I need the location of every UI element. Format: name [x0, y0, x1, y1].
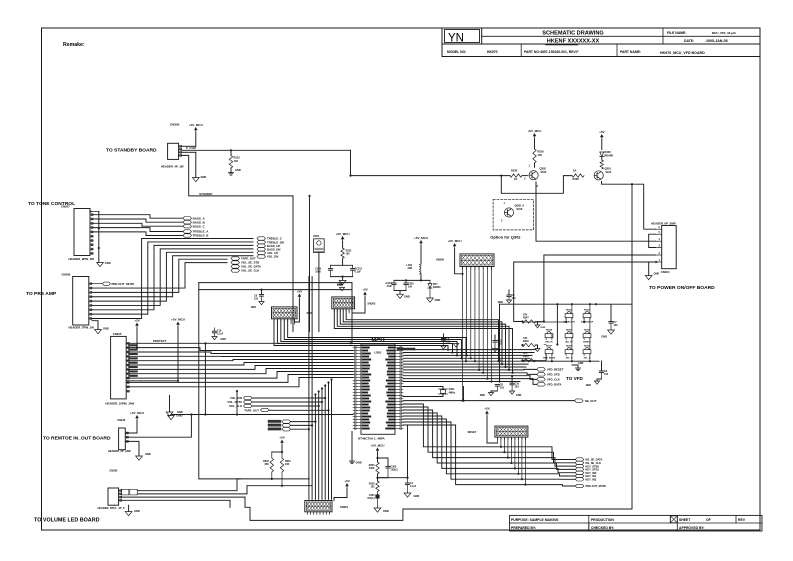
power +5V_MCU at CN240 — [135, 415, 139, 418]
ground below CN302 — [128, 505, 130, 511]
svg-text:102: 102 — [371, 486, 376, 489]
zener ZD301 — [429, 280, 431, 283]
wire Q301 emitter net to CN304 pin6 — [602, 182, 656, 230]
svg-text:OF: OF — [706, 518, 711, 522]
ground triangle mid — [453, 344, 459, 348]
svg-text:CN206: CN206 — [62, 273, 71, 277]
svg-text:REV: REV — [738, 518, 746, 522]
wire P_CON from CN300 to Q302 region — [182, 149, 351, 151]
wire base net y175.6 — [351, 175, 511, 177]
svg-text:103: 103 — [234, 159, 239, 163]
svg-text:PURPOSE: SAMPLE MAKING: PURPOSE: SAMPLE MAKING — [511, 518, 559, 522]
svg-text:103: 103 — [614, 324, 619, 327]
svg-text:VFD_CLK: VFD_CLK — [547, 378, 560, 382]
capacitor C304 104C — [377, 491, 379, 494]
svg-text:SN303: SN303 — [367, 302, 375, 306]
wire vertical x557 from rail — [556, 304, 558, 344]
svg-text:100K: 100K — [369, 467, 375, 470]
svg-text:SB_OUT: SB_OUT — [585, 399, 597, 403]
svg-text:103: 103 — [512, 297, 517, 300]
svg-text:GND: GND — [480, 394, 486, 397]
wire verticals v3-v8 down to SN304 — [314, 395, 316, 499]
svg-text:GND: GND — [177, 410, 183, 414]
MCU right bus lines — [403, 349, 536, 351]
svg-text:Option for Q302: Option for Q302 — [490, 235, 521, 240]
svg-text:+5V_MCU: +5V_MCU — [336, 232, 350, 236]
svg-text:VFD_STB: VFD_STB — [547, 373, 560, 377]
resistor R334 100K — [376, 462, 379, 474]
wire feed to Q301 base — [501, 176, 572, 194]
svg-text:GND: GND — [145, 452, 151, 456]
svg-text:MODEL NO:: MODEL NO: — [447, 50, 466, 54]
svg-text:APPROVED BY:: APPROVED BY: — [679, 526, 705, 530]
ground arrow below CN205 bundle — [169, 395, 171, 412]
regulator U304 — [314, 239, 325, 253]
svg-text:DATE:: DATE: — [684, 39, 694, 43]
svg-text:GND: GND — [414, 494, 420, 498]
svg-text:RESET: RESET — [468, 430, 477, 434]
ground at R310 — [230, 168, 232, 173]
net label KB_ADP smudge above MCU right — [397, 348, 415, 350]
wire PROTECT branch down x205 — [204, 343, 206, 414]
svg-text:GND: GND — [337, 283, 343, 287]
title block top — [441, 28, 443, 57]
wire staircase tone bundle down to preamp pins — [92, 239, 253, 319]
wire STANDBY from CN300 pin4 — [182, 155, 293, 331]
svg-text:HEADER_6P_SMP: HEADER_6P_SMP — [651, 222, 676, 226]
net tag BASS_C — [93, 223, 183, 226]
svg-text:SHEET: SHEET — [679, 518, 691, 522]
svg-text:GND: GND — [201, 175, 207, 179]
svg-text:GND: GND — [103, 327, 109, 331]
wire CN304 pin3-5 bracket — [649, 234, 656, 247]
svg-text:REC IN: REC IN — [545, 341, 553, 343]
wire PRE-OUT_MUTE rail down the left — [199, 343, 240, 479]
resistor R330 45K — [271, 452, 273, 458]
svg-text:Q301: Q301 — [605, 167, 612, 171]
svg-text:3: 3 — [659, 245, 661, 248]
wires switch columns to P_CON rail — [571, 304, 573, 314]
svg-text:+5V: +5V — [279, 435, 284, 439]
svg-text:CN302: CN302 — [109, 469, 118, 473]
wires CN302 to right — [137, 479, 240, 491]
svg-text:103: 103 — [498, 343, 503, 346]
svg-text:VOL_DN: VOL_DN — [267, 255, 278, 259]
svg-text:3: 3 — [537, 184, 539, 188]
power +5V_MCU at L302 — [419, 240, 423, 243]
svg-text:U304: U304 — [313, 234, 320, 238]
wire vertical x309 — [309, 196, 311, 332]
svg-text:+5V_MCU: +5V_MCU — [528, 129, 542, 133]
connector SN304 bottom — [308, 499, 310, 501]
wires CN303 pins down to bus — [462, 267, 464, 401]
svg-text:0.1uF: 0.1uF — [410, 485, 417, 488]
svg-text:GND: GND — [356, 461, 362, 465]
svg-text:+5V_MCU: +5V_MCU — [371, 443, 385, 447]
wire crystal to gnd rail — [463, 387, 465, 401]
svg-text:RD300: RD300 — [433, 286, 441, 289]
svg-text:GND: GND — [435, 298, 441, 302]
svg-text:103: 103 — [515, 386, 520, 389]
svg-text:R308: R308 — [573, 177, 580, 181]
svg-text:R345: R345 — [523, 355, 529, 358]
capacitor C6 103 near CN206 — [260, 289, 262, 291]
svg-text:+5V_MCU: +5V_MCU — [414, 236, 428, 240]
wire second rail y289.6 — [199, 289, 352, 291]
svg-text:VOL_SE_CLK: VOL_SE_CLK — [241, 269, 259, 273]
svg-text:103: 103 — [446, 341, 451, 344]
ground below C209 — [342, 277, 344, 281]
svg-text:GND: GND — [235, 168, 241, 172]
resistor R330 1K at Q302 base — [510, 174, 522, 177]
svg-text:U301: U301 — [374, 351, 382, 355]
svg-text:TO REMTOE IN_OUT BOARD: TO REMTOE IN_OUT BOARD — [43, 436, 111, 442]
svg-text:1: 1 — [659, 259, 661, 262]
wire CN304 pin2 down to R347 — [544, 255, 656, 322]
svg-text:FILE NAME:: FILE NAME: — [667, 31, 686, 35]
svg-text:HK970: HK970 — [487, 50, 498, 54]
svg-text:SCHEMATIC DRAWING: SCHEMATIC DRAWING — [542, 31, 603, 37]
svg-text:HEADER_4P_JW: HEADER_4P_JW — [161, 165, 184, 169]
svg-text:HKENF XXXXXX-XX: HKENF XXXXXX-XX — [547, 39, 600, 45]
svg-text:HEADER_10PIN_JAW: HEADER_10PIN_JAW — [105, 402, 134, 406]
power +5V at CN301 — [485, 411, 489, 414]
svg-text:9014: 9014 — [606, 170, 612, 174]
svg-text:103(C): 103(C) — [391, 469, 399, 472]
svg-text:SN304: SN304 — [340, 505, 348, 509]
capacitor C12 top 103 — [508, 290, 510, 295]
svg-text:GND: GND — [105, 261, 111, 265]
svg-text:YN: YN — [448, 33, 464, 45]
svg-text:VFD_RESET: VFD_RESET — [547, 368, 564, 372]
svg-text:TO VFD: TO VFD — [566, 376, 583, 381]
svg-text:GND: GND — [498, 301, 504, 304]
dashed option box for Q302_A — [493, 199, 533, 230]
svg-text:104(C): 104(C) — [367, 497, 375, 500]
op-amp U301 MCU HT49C70A — [361, 344, 395, 434]
wires SN303 pins down to long bus then right — [334, 309, 512, 373]
svg-text:GND: GND — [383, 509, 389, 513]
crystal X301 with caps — [403, 387, 443, 390]
connector SN302 with +5V — [272, 307, 298, 319]
svg-text:MCU_VFD_18.pcb: MCU_VFD_18.pcb — [712, 31, 736, 35]
net tag BASS_B — [93, 219, 183, 222]
svg-text:R300: R300 — [307, 312, 313, 315]
power +5V_MCU at CN303 — [453, 243, 457, 246]
svg-text:GND: GND — [516, 394, 522, 397]
transistor Q302 9015 — [529, 171, 538, 180]
svg-text:+5V_MCU: +5V_MCU — [448, 239, 462, 243]
svg-text:100: 100 — [408, 286, 413, 289]
transistor Q301 — [594, 171, 603, 180]
wires R330/R331 to left — [247, 485, 282, 487]
capacitor C13 103 — [493, 340, 497, 342]
svg-text:GND: GND — [586, 384, 592, 387]
capacitor C7 103 at RN top — [610, 304, 612, 321]
svg-text:1: 1 — [529, 164, 531, 168]
title block bottom — [510, 515, 762, 531]
svg-text:Remake:: Remake: — [63, 42, 85, 48]
svg-text:1K: 1K — [573, 169, 576, 173]
svg-text:2005-JAN-05: 2005-JAN-05 — [706, 39, 728, 43]
svg-text:PRE-OUT_MUTE: PRE-OUT_MUTE — [112, 282, 135, 286]
wire CN205 signals to MCU left — [126, 348, 353, 351]
svg-text:SB304: SB304 — [546, 329, 553, 332]
svg-text:GND: GND — [578, 362, 584, 365]
svg-text:3: 3 — [501, 220, 503, 223]
svg-text:0.1uF: 0.1uF — [355, 271, 362, 274]
svg-text:45K: 45K — [264, 463, 269, 466]
svg-text:CN205: CN205 — [113, 332, 122, 336]
net tags BASS2 stack — [268, 420, 281, 422]
svg-text:SN300: SN300 — [436, 258, 444, 262]
svg-text:103: 103 — [254, 298, 259, 301]
svg-text:1: 1 — [504, 202, 506, 205]
svg-text:330: 330 — [538, 153, 543, 157]
svg-text:+5V: +5V — [599, 130, 604, 134]
wire preamp mute rail — [199, 282, 352, 284]
svg-text:KEY_IN2: KEY_IN2 — [586, 478, 597, 482]
svg-text:VOL_CLK: VOL_CLK — [229, 404, 242, 408]
svg-text:PART NAME:: PART NAME: — [620, 50, 641, 54]
svg-text:R346: R346 — [523, 340, 529, 343]
capacitor C306 0.1uF — [407, 426, 409, 478]
capacitor C302 104 — [405, 280, 407, 283]
svg-text:HEADER_9PIN_SM: HEADER_9PIN_SM — [69, 257, 95, 261]
svg-text:GND: GND — [404, 295, 410, 299]
svg-text:47uF: 47uF — [386, 285, 392, 288]
svg-text:5: 5 — [659, 231, 661, 234]
power +5V at CN205 — [135, 323, 139, 326]
svg-text:103: 103 — [500, 387, 505, 390]
resistor R308 at Q301 base — [572, 174, 584, 177]
power +5V_MCU at Q302 — [533, 133, 537, 136]
connector SN303 with +5V and GND — [332, 297, 355, 309]
capacitor C209 100U with EC210 — [342, 258, 344, 265]
wire CN240 pin2 to GND rail — [125, 415, 191, 438]
svg-text:GND: GND — [541, 327, 546, 329]
svg-text:HK970_MCU_VFD BOARD: HK970_MCU_VFD BOARD — [660, 51, 705, 55]
svg-text:+5V: +5V — [134, 318, 139, 322]
net tag TREBLE_A — [93, 228, 183, 232]
MCU bottom ground — [351, 432, 353, 462]
svg-text:CN300: CN300 — [170, 123, 180, 127]
net tag BASS_A — [93, 215, 183, 219]
power +5V_MCU at CN300 — [194, 127, 198, 130]
ground below ZD301 — [427, 298, 434, 302]
svg-text:GND: GND — [134, 509, 140, 513]
capacitor C9 103 near RN — [441, 338, 445, 340]
wire junction to C306 right — [378, 477, 408, 479]
ground at CN300 — [182, 151, 196, 153]
svg-text:HEADER_3P_JAW: HEADER_3P_JAW — [108, 449, 131, 453]
power +5V_MCU at R334 — [376, 448, 380, 451]
svg-text:CN304: CN304 — [661, 270, 670, 274]
svg-text:SOURCE UP: SOURCE UP — [581, 321, 594, 323]
svg-text:TO PRE AMP: TO PRE AMP — [26, 291, 57, 297]
svg-text:X301: X301 — [449, 387, 456, 391]
svg-text:RD5R6: RD5R6 — [605, 153, 614, 157]
svg-text:CN240: CN240 — [117, 418, 126, 422]
pin name smudges CN205 — [129, 345, 138, 347]
connector CN301 keypad bottom — [495, 426, 528, 437]
svg-text:+5V: +5V — [362, 287, 367, 291]
svg-text:R347: R347 — [523, 317, 529, 320]
resistor R316 330 — [533, 149, 536, 163]
net tags KB stack — [575, 458, 584, 461]
MCU pin rows — [353, 347, 361, 349]
net tags mid stack TAPE_OUT..VOL_SE_CLK — [231, 257, 240, 260]
svg-text:GND: GND — [221, 338, 227, 341]
ground at CN206 — [92, 321, 98, 330]
wire P_CON branch to RN cluster — [500, 303, 633, 305]
resistor R232 — [341, 248, 344, 258]
wire branch x237 to remote rail — [236, 391, 238, 414]
wire hang vertical x499.5 — [499, 304, 501, 381]
svg-text:100U: 100U — [315, 271, 321, 274]
svg-text:CN207: CN207 — [61, 205, 70, 209]
svg-text:PRE-OUT_MUTE: PRE-OUT_MUTE — [586, 484, 607, 488]
ground at CN304 — [649, 261, 656, 263]
power +5V at SN304 — [345, 483, 349, 486]
svg-text:10M: 10M — [407, 267, 412, 270]
wires SN302 pins down to long bus then right — [274, 319, 448, 350]
svg-text:P_CON: P_CON — [186, 146, 196, 150]
wire bundle MCU right-bottom to KB tags — [403, 404, 575, 460]
svg-text:103: 103 — [604, 373, 609, 376]
svg-text:GND: GND — [251, 306, 257, 309]
wire standby vertical to y176 — [350, 150, 352, 175]
svg-text:GND: GND — [601, 335, 607, 339]
svg-text:HEADER_7PIN_JW: HEADER_7PIN_JW — [69, 326, 95, 330]
svg-text:2: 2 — [524, 177, 526, 181]
wire CN304 pin1 down to R347 left — [514, 262, 656, 322]
svg-text:Q302_A: Q302_A — [515, 204, 525, 208]
capacitor C301 47uF — [394, 279, 430, 281]
svg-text:PREPARED BY:: PREPARED BY: — [511, 526, 536, 530]
svg-text:+5V: +5V — [484, 406, 489, 410]
svg-text:+5V_MCU: +5V_MCU — [130, 411, 144, 415]
capacitor C11 103 right — [601, 361, 603, 371]
transistor Q302_A 9015 optional — [504, 208, 513, 217]
power +5V_MCU at CN205 — [176, 322, 180, 325]
svg-text:PRODUCTION: PRODUCTION — [591, 518, 614, 522]
wire bottom net to P_CON vertical — [245, 497, 632, 520]
svg-text:TAPE_OUT: TAPE_OUT — [244, 408, 259, 412]
svg-text:+5V_MCU: +5V_MCU — [189, 123, 203, 127]
wire remote rail to MCU — [191, 414, 353, 416]
ground near VFD tags — [572, 365, 578, 368]
wire PROTECT net — [126, 342, 350, 344]
wire U304 down — [318, 253, 320, 332]
svg-text:TO POWER ON/OFF BOARD: TO POWER ON/OFF BOARD — [649, 285, 715, 291]
net tag TREBLE_B — [93, 232, 183, 236]
svg-text:4: 4 — [659, 238, 661, 241]
svg-text:Q302: Q302 — [540, 167, 547, 171]
net tags VFD_RESET/STB/CLK/DATA — [537, 368, 546, 371]
ground arrow on remote rail — [171, 414, 191, 416]
svg-text:+5V_MCU: +5V_MCU — [171, 317, 185, 321]
svg-text:HEADER_SPUL_4P_S: HEADER_SPUL_4P_S — [98, 506, 125, 510]
net tags far stack TREBLE_C..VOL_DN — [257, 237, 266, 240]
power +5V at Q301 — [600, 134, 604, 137]
power +5V_MCU above C209 — [341, 236, 345, 239]
svg-text:TO STANDBY BOARD: TO STANDBY BOARD — [106, 148, 157, 154]
ground below C301/C302 — [394, 290, 406, 292]
svg-text:0.1uF: 0.1uF — [217, 333, 224, 336]
svg-text:BASS_C: BASS_C — [193, 224, 206, 228]
capacitor C8 103 — [495, 384, 499, 386]
wires R330/R331 to right — [272, 478, 310, 480]
ground at CN207 — [98, 212, 100, 263]
svg-text:4MHz: 4MHz — [449, 390, 456, 394]
wire long vertical x632 to bottom net — [631, 184, 633, 509]
svg-text:TO VOLUME LED BOARD: TO VOLUME LED BOARD — [34, 518, 100, 524]
resistor arrays at CN302 — [121, 489, 129, 495]
resistor R306 — [600, 160, 603, 169]
ground below CN240 — [125, 441, 139, 456]
svg-text:HT49C70A-1_48PA: HT49C70A-1_48PA — [358, 437, 385, 441]
svg-text:CHECKED BY:: CHECKED BY: — [591, 526, 614, 530]
power +5V at R330/R331 — [280, 440, 284, 443]
svg-text:9015: 9015 — [541, 170, 547, 174]
svg-text:100: 100 — [346, 253, 351, 256]
svg-text:+5V: +5V — [344, 479, 349, 483]
svg-text:PART NO:4897-150230-001, REV: PART NO:4897-150230-001, REV.F — [524, 50, 578, 54]
ground below R335 — [374, 508, 381, 512]
resistor R310 102 — [230, 150, 232, 155]
svg-text:6: 6 — [659, 226, 661, 229]
svg-text:VFD_DATA: VFD_DATA — [547, 383, 562, 387]
resistor R335 102 — [376, 481, 379, 491]
svg-text:GND: GND — [654, 272, 660, 276]
capacitor C10 103 — [511, 376, 513, 383]
net tag PRE-OUT_MUTE at CN206 — [92, 283, 102, 285]
svg-text:2: 2 — [659, 252, 661, 255]
wires switch left col verticals — [551, 334, 553, 338]
svg-text:1K: 1K — [514, 177, 517, 181]
svg-text:10K: 10K — [285, 463, 290, 466]
svg-text:DIRECT: DIRECT — [583, 341, 591, 343]
wire SB_OUT rail — [403, 400, 575, 402]
svg-text:STANDBY: STANDBY — [199, 192, 212, 196]
wires CN301 pins to bundle — [496, 437, 498, 443]
diode D300 — [600, 152, 604, 157]
capacitor C305 103C — [378, 458, 389, 466]
resistor R331 10K — [281, 452, 283, 458]
wire Q302 emitter to CN304 pin4 — [536, 182, 656, 241]
svg-text:9015: 9015 — [517, 207, 523, 211]
svg-text:R330: R330 — [511, 169, 518, 173]
svg-text:TIME_MODE: TIME_MODE — [543, 357, 556, 359]
svg-text:TREBLE_B: TREBLE_B — [193, 234, 210, 238]
wire switch row feeds — [523, 321, 567, 323]
svg-text:PROTECT: PROTECT — [153, 339, 167, 343]
capacitor C19 0.1uF near CN205 — [214, 328, 216, 331]
wire pair down x308 to SN304 — [308, 277, 310, 499]
net tag SB_OUT — [575, 399, 584, 402]
